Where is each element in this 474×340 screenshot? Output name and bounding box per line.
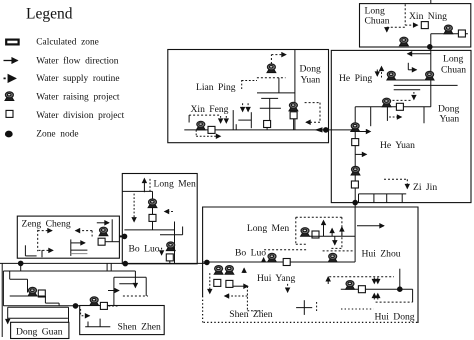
wire vertical x174.5: [174, 222, 176, 264]
water division square (Xin Feng): [208, 126, 215, 133]
supply routine dashed arrow right (top): [38, 230, 52, 232]
supply routine dashed arrow right to division square: [405, 24, 417, 26]
water raising pump (Shen Zhen): [90, 297, 99, 306]
water raising pump (He Ping right): [425, 71, 434, 80]
svg-text:Dong: Dong: [300, 64, 322, 75]
flow arrow up tick (Bo Luo): [263, 258, 265, 262]
legend calculated zone icon: [6, 40, 18, 45]
svg-text:Dong Guan: Dong Guan: [16, 326, 63, 337]
flow arrows up from y236.3: [323, 221, 325, 237]
water raising pump (Hui Yang 1): [214, 266, 223, 275]
water division square (Hui Dong): [358, 286, 365, 293]
water raising pump (Xin Ning): [444, 25, 453, 34]
flow arrow right (center): [71, 242, 85, 244]
wire backbone (Xin Feng line): [184, 129, 355, 131]
wire far-left vertical: [2, 271, 4, 306]
water raising pump (Hui Dong): [346, 281, 355, 290]
supply routine dashed beside arrow: [149, 179, 151, 193]
zone node (Hui Dong): [398, 287, 403, 292]
wire horizontal y271: [3, 270, 135, 272]
water division square (Hui Yang 2): [226, 280, 233, 287]
flow arrow up x328.2: [327, 277, 329, 284]
svg-text:Bo Luo: Bo Luo: [235, 247, 266, 258]
legend water flow direction icon: [4, 60, 18, 62]
wire small T right: [238, 119, 251, 121]
wire center T: [70, 239, 72, 256]
supply routine dashed arrow right: [271, 54, 286, 56]
supply routine dashed from node: [80, 309, 82, 316]
svg-text:Water flow direction: Water flow direction: [36, 56, 118, 67]
supply routine dashed over Xin Feng pump: [189, 114, 220, 116]
zone node on left edge: [205, 260, 210, 265]
wire tick x42: [41, 250, 43, 257]
supply routine dashed down arrow: [133, 194, 135, 222]
zone node on Long Men left edge: [122, 234, 127, 239]
zone node x75.5: [73, 304, 78, 309]
wire Zi Jin comb: [359, 193, 407, 195]
legend water raising project icon: [5, 92, 14, 101]
wire horizontal y307.2: [8, 306, 69, 308]
wire horizontal y229.9: [124, 229, 174, 231]
water division square (Hui Yang 1): [214, 279, 221, 286]
calculated zone box Shen Zhen: [80, 306, 165, 335]
supply routine dashed under pump: [195, 130, 197, 136]
flow arrow down small (He Ping): [376, 70, 378, 77]
calculated zone box Lian Ping / Xin Feng / Dong Yuan: [168, 50, 329, 143]
supply routine dashed down arrow x287.6: [287, 284, 289, 292]
wire edge vertical: [1, 263, 3, 337]
supply routine dashed y302.1: [376, 301, 413, 303]
svg-text:Hui Dong: Hui Dong: [375, 312, 415, 323]
supply routine dashed below pump: [257, 77, 286, 79]
svg-text:Yuan: Yuan: [301, 75, 321, 86]
wire backbone main line: [0, 262, 207, 264]
wire horizontal gray: [71, 253, 88, 255]
supply routine dashed (Hui Zhou): [323, 250, 355, 252]
flow arrow right: [355, 153, 366, 155]
water raising pump (Bo Luo line 2): [328, 253, 337, 262]
water division square (Bo Luo line): [283, 259, 290, 266]
svg-text:Zi Jin: Zi Jin: [413, 182, 437, 193]
supply routine dashed up from pump: [270, 55, 272, 64]
wire Hui Dong line y289.2: [341, 288, 413, 290]
wire ticks below backbone: [106, 263, 108, 271]
legend zone node icon: [5, 131, 12, 137]
dotted bottom edge: [204, 321, 419, 323]
water division square (Dong Guan): [38, 290, 45, 297]
svg-text:Legend: Legend: [26, 6, 73, 23]
water division square (Bo Luo left): [166, 254, 173, 261]
supply routine dashed up arrows (below line): [373, 294, 375, 300]
supply routine dashed down arrows (right pair): [242, 103, 244, 111]
supply routine dashed U right: [305, 102, 320, 104]
svg-text:Long Men: Long Men: [154, 179, 196, 190]
supply routine dashed arrow left (middle): [76, 230, 93, 232]
zone node He Yuan spine bottom: [353, 200, 358, 205]
supply routine dashed (Bo Luo): [264, 249, 306, 251]
zone node on backbone: [324, 128, 329, 133]
supply routine dashed vertical: [37, 230, 39, 251]
legend water supply routine icon: [4, 77, 16, 79]
zone node on backbone at Long Men corner: [123, 261, 128, 266]
svg-text:Xin Ning: Xin Ning: [409, 11, 447, 22]
wire vertical x68.5: [68, 307, 70, 322]
water raising pump (Xin Feng): [196, 121, 205, 130]
supply routine dashed up arrow (He Ping): [381, 67, 383, 78]
supply routine dashed down arrow: [413, 92, 415, 100]
supply routine dashed down from Long Chuan: [404, 4, 406, 25]
water raising pump (He Yuan upper): [351, 123, 360, 132]
svg-text:Chuan: Chuan: [441, 65, 466, 76]
wire horizontal y85: [394, 84, 458, 86]
calculated zone box Dong Guan: [11, 322, 69, 338]
supply routine dashed rect (Long Men): [296, 216, 342, 218]
supply routine dashed y276.7: [329, 276, 394, 278]
wire horizontal y279.2: [10, 278, 28, 280]
supply routine dotted y309: [341, 308, 374, 310]
water division square (Xin Ning right): [458, 30, 465, 37]
supply routine dashed right of square: [109, 305, 119, 307]
supply routine dashed L down-left with arrow: [387, 26, 405, 28]
wire tick below pump: [386, 107, 388, 121]
wire horizontal y234.8: [160, 234, 183, 236]
water raising pump (He Ping): [387, 71, 396, 80]
water raising pump (Hui Yang 2): [225, 266, 234, 275]
water division square (Shen Zhen): [100, 302, 107, 309]
wire horizontal y191.4: [122, 190, 152, 192]
water division square (Dong Yuan): [396, 103, 403, 110]
flow arrow right y290.5: [108, 290, 119, 292]
water division square (He Yuan lower): [351, 181, 358, 188]
zone node on top box bottom edge: [428, 45, 433, 50]
svg-text:Zeng Cheng: Zeng Cheng: [22, 218, 71, 229]
svg-text:Chuan: Chuan: [365, 16, 390, 27]
wire tick x182.6: [182, 227, 184, 235]
water raising pump (Long Men): [148, 199, 157, 208]
supply routine dashed tick: [316, 302, 318, 312]
flow arrow right (Hui Zhou link): [357, 225, 384, 227]
wire stub above box: [430, 0, 432, 4]
flow arrow up x244.1: [243, 268, 245, 273]
water division square (Long Men inner): [312, 231, 319, 238]
legend water division project icon: [6, 110, 13, 117]
flow arrow up: [143, 179, 145, 193]
svg-text:Zone node: Zone node: [36, 130, 78, 140]
wire horizontal y106.8 (Dong Yuan link): [355, 106, 431, 108]
supply routine dashed arrow left: [165, 211, 173, 213]
supply routine dashed arrow right (bottom): [39, 249, 54, 251]
wire tick right of Xin Feng text: [232, 110, 234, 130]
water division square (Zeng Cheng): [98, 238, 105, 245]
water raising pump (Dong Yuan): [382, 98, 391, 107]
wire horizontal y241.7: [105, 241, 119, 243]
wire + flow arrow right (He Ping top): [407, 63, 409, 70]
svg-text:Long: Long: [443, 54, 463, 65]
dotted lower left edge: [202, 296, 204, 322]
wire tick x236.2: [235, 124, 237, 130]
wire divider x294.9: [294, 50, 296, 131]
wire tick x278.9: [278, 78, 280, 93]
svg-text:He Ping: He Ping: [339, 73, 372, 84]
water division square (top box): [421, 22, 428, 29]
flow arrow left (to Long Chuan): [408, 53, 431, 55]
water raising pump (top box bottom): [400, 37, 409, 46]
wire from node down: [20, 263, 22, 271]
water raising pump (Bo Luo line 1): [268, 253, 277, 262]
wire pump line y296: [10, 295, 46, 297]
wire vertical x400.5: [399, 269, 401, 290]
svg-text:Xin Feng: Xin Feng: [191, 104, 229, 115]
wire spine continues into Hui Zhou box: [354, 203, 356, 207]
wire horizontal y92.9: [257, 92, 295, 94]
flow arrow right: [355, 131, 370, 133]
supply routine dashed arrow left: [225, 295, 248, 297]
svg-text:Lian Ping: Lian Ping: [196, 82, 236, 93]
supply routine dashed y310.7: [247, 310, 263, 312]
water raising pump (Lian Ping top): [267, 64, 276, 73]
wire tick x424: [423, 107, 425, 124]
supply routine dash-dot horizontal: [393, 99, 412, 101]
wire T structure: [261, 97, 278, 99]
supply routine dashed down arrows: [373, 278, 375, 284]
wire vertical x412.6: [412, 289, 414, 302]
water division square below pump: [290, 112, 297, 119]
water raising pump (Dong Yuan side): [289, 102, 298, 111]
wire vertical x112.2: [111, 219, 113, 241]
wire Bo Luo line y262: [203, 261, 356, 263]
wire horizontal y318.3: [8, 317, 68, 319]
supply routine dashed y296: [123, 295, 148, 297]
svg-text:Water supply routine: Water supply routine: [36, 74, 119, 84]
water raising pump (Dong Guan): [28, 287, 37, 296]
wire He Yuan spine: [354, 107, 356, 203]
svg-text:Water raising project: Water raising project: [36, 92, 120, 102]
wire main vertical in top box: [430, 34, 432, 47]
zone node backbone left: [18, 261, 23, 266]
svg-text:Shen Zhen: Shen Zhen: [118, 322, 162, 333]
flow arrow down x135.4: [134, 271, 136, 288]
water division square (Long Men): [149, 214, 156, 221]
water raising pump (Bo Luo left): [166, 242, 175, 251]
wire horizontal y305.8: [3, 305, 79, 307]
wire vertical x7.7 + arrow down: [7, 307, 9, 318]
supply routine dashed L (Zi Jin): [384, 178, 407, 180]
wire cross (Shen Zhen right): [296, 307, 312, 309]
calculated zone box Long Chuan / Xin Ning: [360, 4, 471, 47]
wire Xin Ning line: [431, 33, 468, 35]
wire vertical x152.5: [152, 191, 154, 230]
supply routine dashed down arrows: [220, 116, 222, 123]
wire L bottom-left: [24, 245, 26, 256]
supply routine dashed vertical x92: [91, 231, 93, 237]
supply routine dashed arrow right: [389, 116, 401, 118]
svg-text:Calculated zone: Calculated zone: [36, 37, 99, 47]
wire interior Shen Zhen: [85, 326, 110, 328]
wire inner divider vertical x355.1: [354, 207, 356, 262]
wire main vertical from node down: [430, 47, 432, 107]
calculated zone box He Ping / He Yuan: [331, 50, 471, 202]
flow arrowhead left on backbone: [315, 127, 323, 132]
supply routine dashed vertical x247.4: [246, 286, 248, 311]
calculated zone box Zeng Cheng: [17, 216, 119, 258]
wire He Ping pump line: [387, 79, 431, 81]
wire horizontal y250.1: [71, 249, 88, 251]
supply routine dashed fragment right of Lian Ping label: [241, 80, 243, 89]
calculated zone box Hui Zhou (outer): [203, 207, 418, 323]
svg-text:Bo Luo: Bo Luo: [129, 243, 160, 254]
wire horizontal y89.7: [394, 89, 421, 91]
svg-text:Long Men: Long Men: [247, 223, 289, 234]
supply routine dashed down left edge: [209, 273, 211, 293]
water raising pump (He Yuan lower): [351, 166, 360, 175]
flow arrow down: [334, 236, 336, 245]
svg-text:He Yuan: He Yuan: [380, 140, 415, 151]
svg-text:Yuan: Yuan: [440, 114, 460, 125]
wire y236.3: [309, 235, 355, 237]
flow arrow right: [233, 285, 248, 287]
water raising pump (Long Men inner): [301, 228, 310, 237]
calculated zone box Long Men / Bo Luo: [122, 174, 197, 264]
water raising pump (Zeng Cheng): [99, 227, 108, 236]
wire upper Shen Zhen feeder: [113, 277, 115, 305]
flow arrow right (top right): [97, 222, 109, 224]
water division square (He Yuan upper): [352, 139, 359, 146]
svg-text:Water division project: Water division project: [36, 111, 124, 121]
wire link from Zeng Cheng box: [119, 235, 122, 237]
svg-text:Hui Zhou: Hui Zhou: [362, 249, 401, 260]
supply routine dashed down arrow (Bo Luo): [161, 248, 163, 255]
svg-text:Hui Yang: Hui Yang: [257, 273, 295, 284]
wire tick below y106.8: [370, 107, 372, 126]
water division square (Lian Ping bottom): [264, 121, 271, 128]
